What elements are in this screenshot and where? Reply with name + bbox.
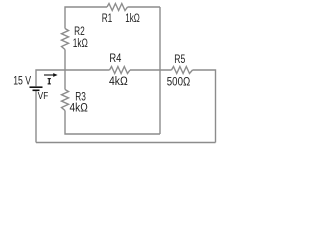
label current I (serif capital I drawn as strokes): [48, 79, 51, 84]
wire: left branch bottom + inner bottom net (R3 to node B): [65, 111, 160, 135]
wire: outer bottom net (source negative to R5 branch): [36, 142, 216, 144]
wire: top net, right segment (R1 to node B): [128, 6, 161, 8]
resistor R3: [62, 90, 69, 111]
svg-text:4kΩ: 4kΩ: [109, 76, 128, 88]
svg-text:R3: R3: [75, 91, 86, 103]
svg-text:R1: R1: [102, 13, 113, 25]
current arrow I: [44, 73, 58, 77]
voltage source V1 15V negative plate: [33, 89, 40, 91]
wire: node A to R4: [65, 69, 110, 71]
resistor R5: [172, 67, 193, 74]
wire: R4 to node B: [130, 69, 172, 71]
svg-text:1kΩ: 1kΩ: [73, 38, 88, 50]
svg-text:4kΩ: 4kΩ: [70, 103, 89, 115]
svg-text:R4: R4: [109, 53, 121, 65]
svg-text:R5: R5: [174, 54, 185, 66]
voltage source V1 15V positive plate: [30, 86, 43, 88]
resistor R2: [62, 29, 69, 50]
wire: R5 to far-right corner, down to bottom net: [193, 70, 216, 143]
wire: top net, left segment (node A to R1): [65, 7, 107, 29]
svg-text:1kΩ: 1kΩ: [125, 13, 140, 25]
svg-text:R2: R2: [74, 26, 85, 38]
wire: source bottom lead: [35, 91, 37, 143]
wire: left branch between R2 and node A: [64, 50, 66, 90]
wire: middle vertical (node B: top net to bottom): [159, 7, 161, 134]
svg-text:500Ω: 500Ω: [167, 77, 191, 89]
svg-text:VF: VF: [38, 90, 48, 102]
resistor R4: [110, 67, 131, 74]
svg-text:15 V: 15 V: [13, 75, 31, 87]
wire: source top lead to node A: [36, 70, 65, 86]
resistor R1: [107, 4, 128, 11]
